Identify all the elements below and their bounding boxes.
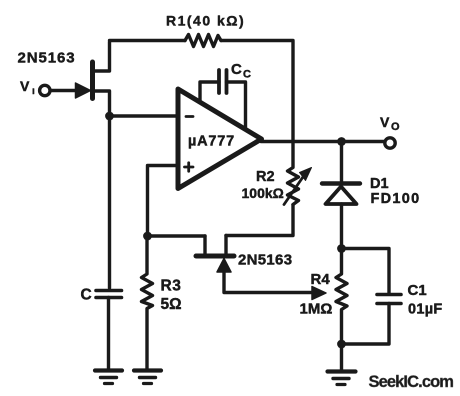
wire C to ground xyxy=(107,298,110,371)
wire node B to Q2 source xyxy=(148,234,206,237)
wire C1 to node D xyxy=(342,304,390,345)
svg-text:C: C xyxy=(231,61,242,78)
op-amp U1 uA777 xyxy=(178,89,262,189)
label Vi xyxy=(20,78,35,97)
wire top left xyxy=(110,39,186,42)
svg-text:C: C xyxy=(81,287,92,304)
svg-text:ı: ı xyxy=(32,86,35,97)
svg-text:D1: D1 xyxy=(370,176,389,192)
capacitor CC xyxy=(200,70,246,127)
ground under C xyxy=(95,371,122,384)
wire op-amp output xyxy=(261,140,384,143)
svg-text:R2: R2 xyxy=(256,169,275,185)
wire noninverting input xyxy=(148,166,179,237)
resistor R1 xyxy=(185,35,221,47)
diode D1 xyxy=(322,184,360,205)
svg-text:FD100: FD100 xyxy=(371,191,421,207)
label CC xyxy=(231,61,251,81)
svg-text:2N5163: 2N5163 xyxy=(18,50,76,67)
ground under R4 xyxy=(328,372,356,385)
node C junction xyxy=(337,244,346,253)
label Vo xyxy=(380,114,400,133)
svg-text:O: O xyxy=(391,121,400,133)
svg-text:1MΩ: 1MΩ xyxy=(300,301,333,318)
svg-text:V: V xyxy=(20,78,30,94)
transistor Q1 2N5163 xyxy=(76,42,110,116)
node output junction xyxy=(337,137,346,146)
svg-text:2N5163: 2N5163 xyxy=(238,252,292,269)
node B junction xyxy=(143,232,152,241)
wire Q2 drain to R2 bottom xyxy=(226,205,293,236)
svg-text:V: V xyxy=(380,114,390,130)
resistor R2 variable xyxy=(284,142,312,205)
wire Q2 gate to R4 wiper arrow xyxy=(224,271,326,300)
node A junction xyxy=(105,112,114,121)
wire node D to ground xyxy=(340,344,343,371)
svg-text:100kΩ: 100kΩ xyxy=(242,185,284,201)
svg-text:R4: R4 xyxy=(311,271,331,288)
node D junction xyxy=(337,340,346,349)
wire node C to capacitor C1 xyxy=(342,249,390,294)
wire node A to inverting input xyxy=(110,114,178,117)
output terminal Vo xyxy=(385,138,395,148)
wire input to Q1 gate xyxy=(51,89,77,92)
transistor Q2 2N5163 xyxy=(196,236,234,273)
wire top right feedback xyxy=(221,41,293,142)
svg-text:R3: R3 xyxy=(161,278,182,295)
capacitor C xyxy=(96,291,122,298)
ground under R3 xyxy=(134,371,161,384)
wire node A down to capacitor C xyxy=(108,116,111,288)
svg-text:5Ω: 5Ω xyxy=(161,296,182,313)
wire output node to D1 xyxy=(340,142,343,183)
svg-text:SeekIC.com: SeekIC.com xyxy=(369,373,454,391)
svg-text:01µF: 01µF xyxy=(408,302,443,318)
svg-text:R1(40 kΩ): R1(40 kΩ) xyxy=(166,13,245,29)
svg-text:C: C xyxy=(243,69,251,81)
input terminal Vi xyxy=(40,85,50,95)
svg-text:µA777: µA777 xyxy=(188,134,235,150)
wire D1 to node C xyxy=(340,204,343,249)
potentiometer R4 xyxy=(336,249,347,345)
capacitor C1 xyxy=(377,295,401,304)
svg-text:C1: C1 xyxy=(408,282,427,299)
resistor R3 xyxy=(142,236,153,370)
